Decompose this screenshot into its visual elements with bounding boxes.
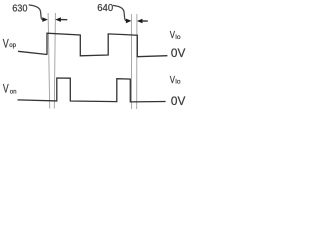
arrowhead 630 right-pointing [42, 17, 48, 22]
node 640 reference line right [136, 14, 138, 109]
svg-text:0V: 0V [171, 94, 186, 108]
svg-text:630: 630 [12, 3, 28, 15]
svg-text:op: op [9, 42, 16, 49]
label Vlo bottom right [170, 74, 181, 86]
wire waveform Vop left baseline [18, 51, 47, 54]
node 630 reference line left [48, 13, 50, 109]
wire leader 640 [113, 5, 126, 20]
svg-text:640: 640 [97, 3, 113, 14]
node 640 reference line left [130, 14, 132, 109]
arrowhead 640 right-pointing [126, 19, 131, 24]
node 630 reference line right [54, 13, 55, 109]
wire waveform Vop [47, 33, 167, 57]
label Vlo top right [170, 29, 181, 41]
wire tail 630 [61, 19, 68, 21]
label Von [3, 83, 17, 96]
svg-text:lo: lo [175, 79, 180, 86]
svg-text:lo: lo [175, 34, 180, 41]
svg-text:on: on [10, 88, 17, 95]
wire waveform Von [18, 78, 166, 102]
svg-text:V: V [3, 83, 9, 96]
arrowhead 640 left-pointing with tail [137, 19, 143, 24]
wire leader 630 [29, 5, 43, 20]
svg-text:0V: 0V [171, 46, 186, 60]
label Vop [3, 37, 17, 51]
wire tail 640 [142, 20, 148, 22]
arrowhead 630 left-pointing with tail [55, 17, 61, 22]
